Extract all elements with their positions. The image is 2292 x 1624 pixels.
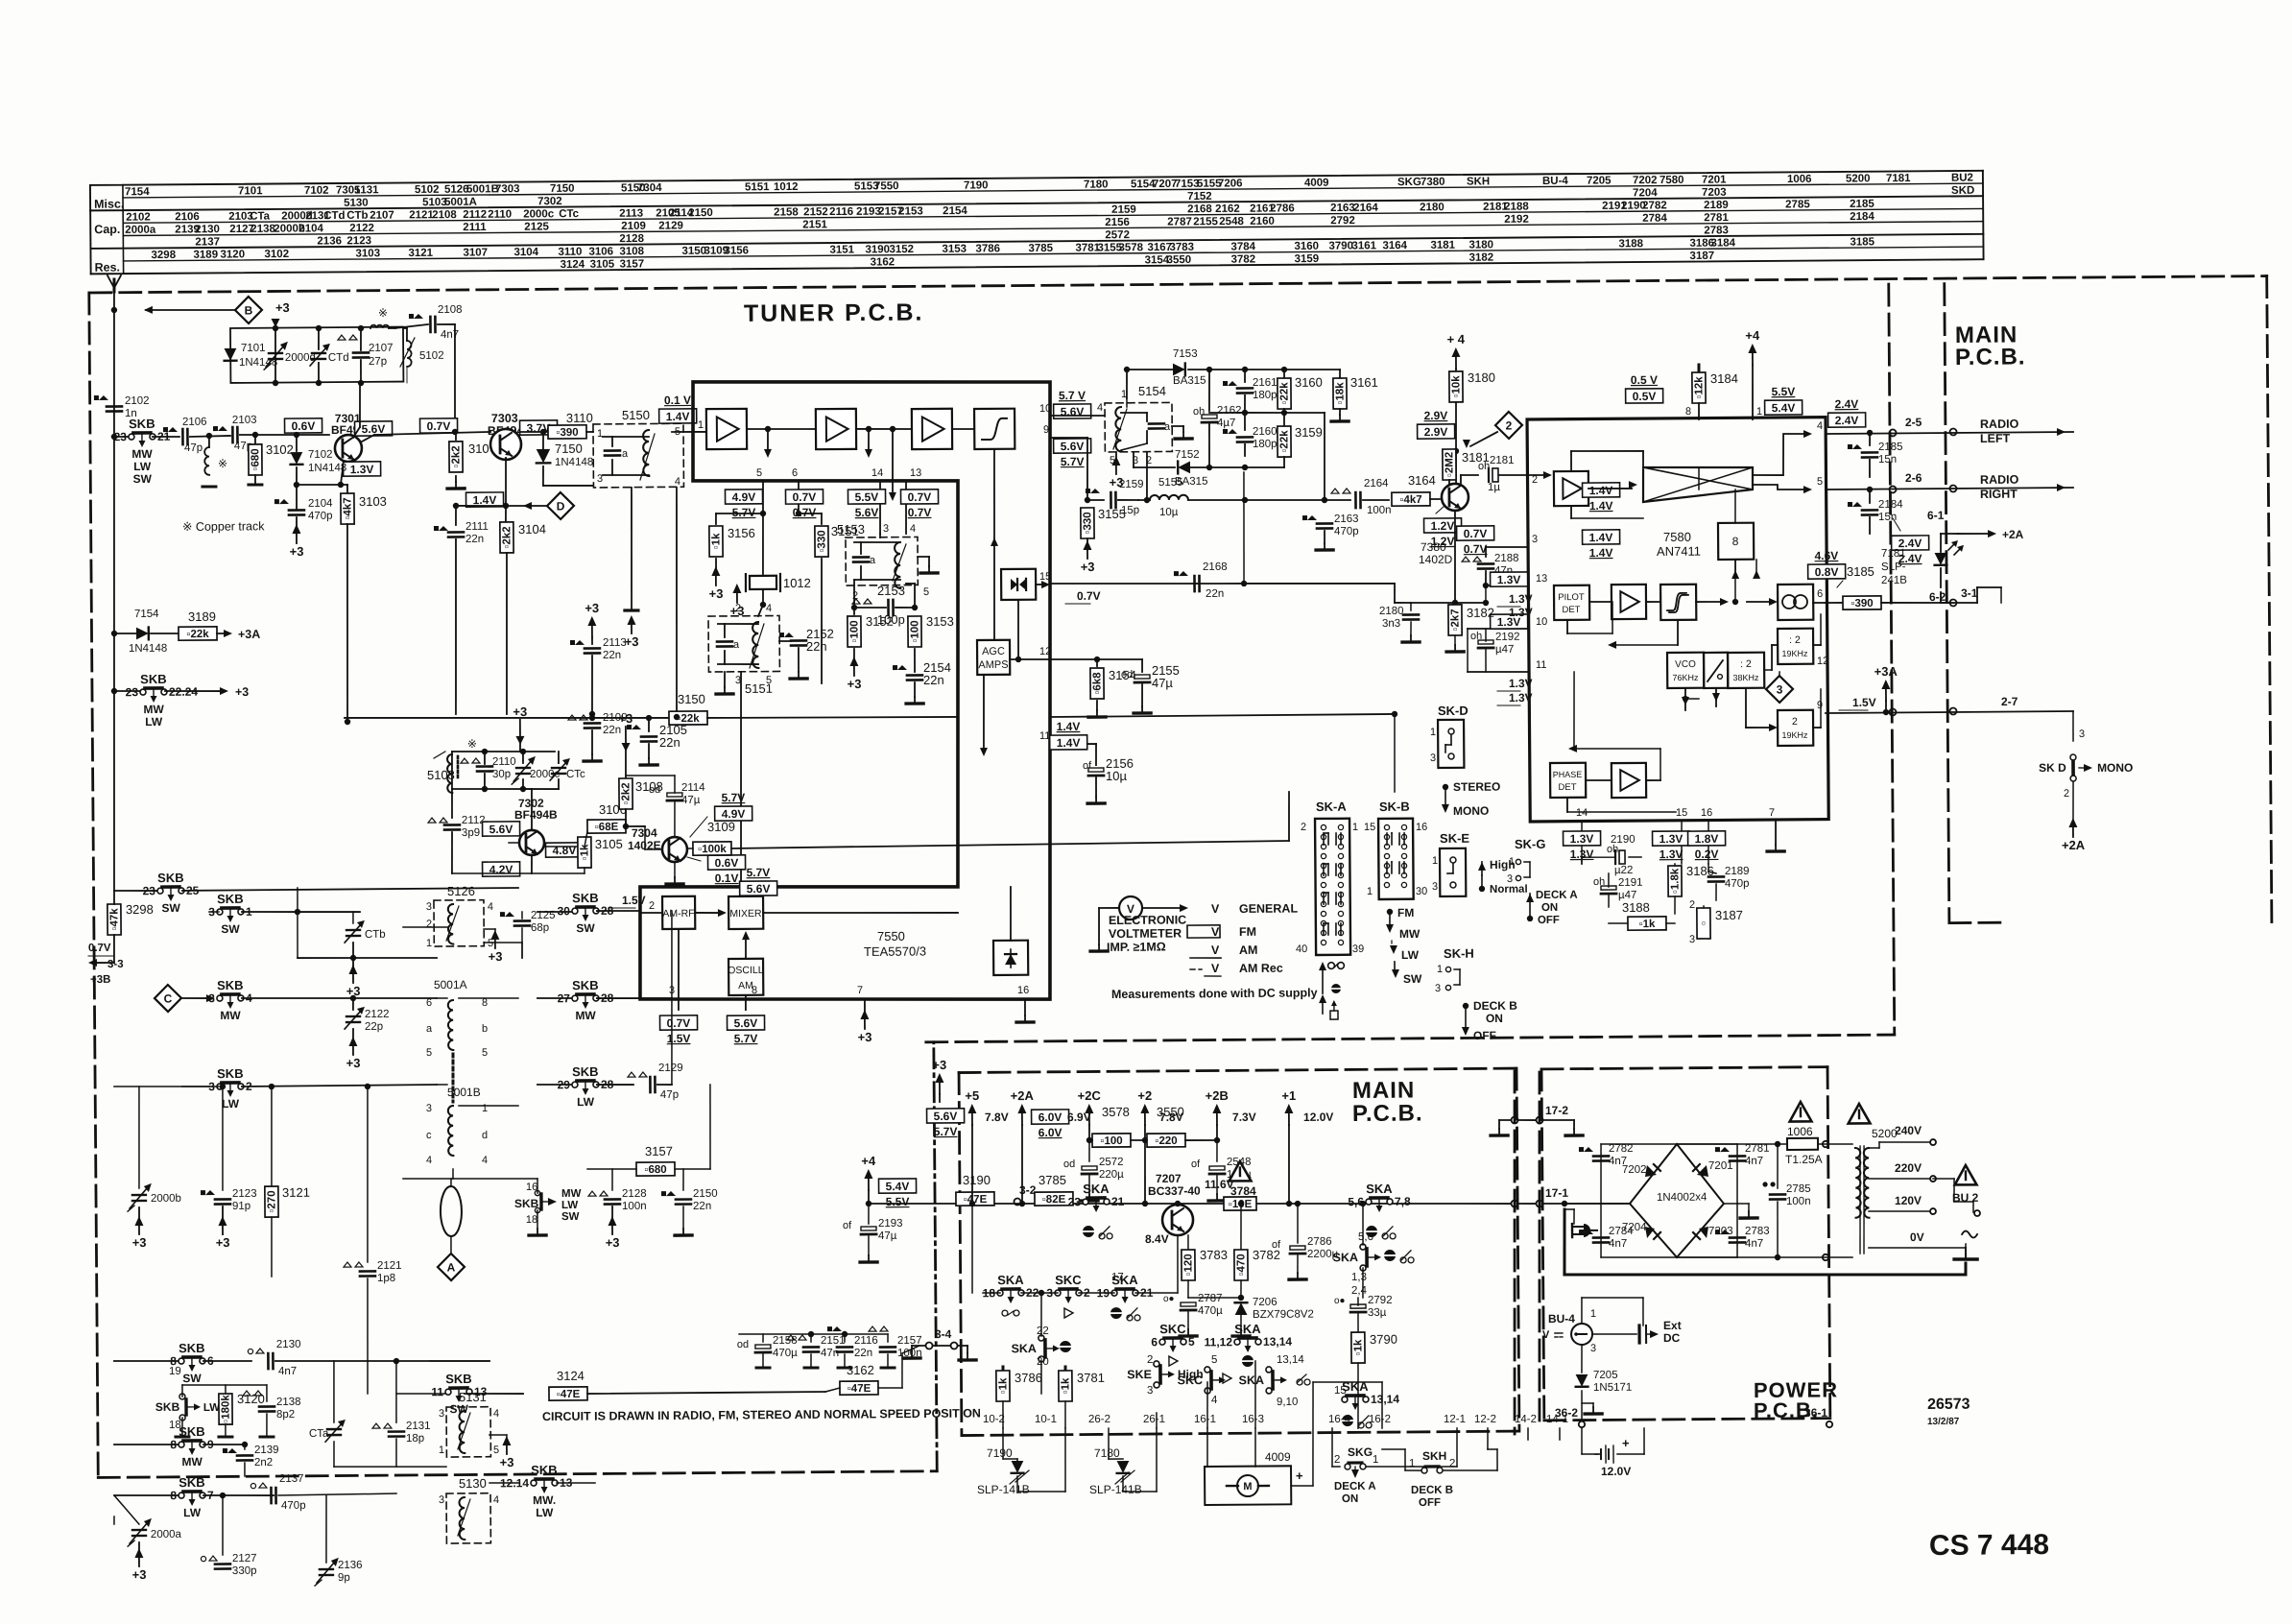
svg-text:2129: 2129 — [658, 220, 683, 231]
svg-text:2123: 2123 — [346, 235, 371, 247]
svg-text:▫6k8: ▫6k8 — [1091, 672, 1103, 695]
svg-text:3187: 3187 — [1689, 251, 1714, 262]
svg-text:2136: 2136 — [317, 235, 342, 247]
svg-text:+4: +4 — [1745, 328, 1760, 343]
svg-text:2162: 2162 — [1217, 405, 1242, 417]
svg-text:SKC: SKC — [1055, 1273, 1082, 1287]
svg-text:DET: DET — [1558, 782, 1576, 793]
svg-text:▫680: ▫680 — [644, 1164, 666, 1176]
svg-text:+ 4: + 4 — [1447, 332, 1466, 346]
legend V FM — [1187, 925, 1220, 938]
svg-text:3102: 3102 — [266, 442, 294, 457]
TUNER P.C.B. border bottom-right — [926, 1035, 1895, 1042]
MAIN P.C.B. border left (upper right section) — [1945, 284, 1949, 923]
svg-text:1: 1 — [1437, 964, 1443, 975]
svg-text:AM Rec: AM Rec — [1239, 962, 1283, 975]
TUNER P.C.B. border right — [1889, 284, 1895, 1035]
svg-text:b: b — [482, 1023, 488, 1035]
svg-text:100n: 100n — [622, 1201, 647, 1212]
svg-text:2192: 2192 — [1504, 214, 1529, 226]
IF amplifier 2 — [816, 409, 856, 449]
svg-text:10-2: 10-2 — [983, 1414, 1005, 1425]
svg-text:2185: 2185 — [1850, 199, 1874, 210]
svg-text:3124: 3124 — [561, 259, 585, 271]
resistor 3155 330 — [1081, 508, 1094, 538]
+3 under CTb — [352, 958, 354, 969]
svg-text:3: 3 — [1590, 1343, 1596, 1354]
capacitor 2189 470p — [1707, 864, 1709, 872]
svg-text:+4: +4 — [861, 1154, 876, 1168]
pin 14 wire — [879, 481, 882, 534]
svg-text:▫270: ▫270 — [266, 1190, 277, 1212]
svg-text:SKD: SKD — [1951, 185, 1974, 197]
capacitor 2104 470p — [275, 499, 279, 504]
svg-text:3104: 3104 — [513, 247, 538, 258]
svg-text:2163: 2163 — [1330, 203, 1355, 214]
svg-text:+2A: +2A — [2002, 528, 2024, 541]
svg-text:7204: 7204 — [1633, 187, 1658, 199]
svg-text:2123: 2123 — [232, 1188, 257, 1200]
svg-text:MIXER: MIXER — [729, 908, 762, 919]
resistor 3159 22k — [1283, 413, 1285, 426]
svg-text:1006: 1006 — [1787, 1125, 1813, 1138]
svg-text:7154: 7154 — [134, 609, 159, 620]
svg-text:7181: 7181 — [1886, 173, 1911, 184]
svg-text:2189: 2189 — [1725, 866, 1750, 877]
svg-text:FM: FM — [1397, 906, 1414, 919]
svg-text:3: 3 — [1432, 881, 1438, 893]
svg-text:6.0V: 6.0V — [1039, 1126, 1062, 1139]
svg-text:a: a — [733, 639, 740, 651]
svg-text:10µ: 10µ — [1159, 507, 1179, 518]
svg-text:5: 5 — [1211, 1354, 1217, 1366]
resistor 3107 2k2 — [455, 432, 457, 440]
svg-text:+2: +2 — [1137, 1088, 1152, 1103]
svg-text:a: a — [622, 448, 629, 460]
svg-text:4.9V: 4.9V — [732, 490, 756, 504]
svg-text:20: 20 — [1037, 1356, 1049, 1368]
svg-text:2: 2 — [1147, 1354, 1153, 1366]
MAIN P.C.B. border (lower) left — [959, 1073, 962, 1436]
svg-text:2127: 2127 — [232, 1553, 257, 1564]
coil 5102 — [407, 341, 412, 367]
svg-text:4: 4 — [493, 1494, 499, 1506]
svg-text:MW: MW — [220, 1009, 241, 1022]
diode 7150 1N4148 — [540, 429, 546, 435]
svg-text:of: of — [1191, 1158, 1201, 1170]
svg-text:3160: 3160 — [1295, 375, 1323, 390]
capacitor 2153 100p — [853, 580, 855, 608]
svg-text:4: 4 — [1097, 402, 1103, 414]
svg-text:14: 14 — [871, 467, 883, 479]
svg-text:5,6: 5,6 — [1358, 1231, 1373, 1243]
svg-text:2548: 2548 — [1219, 216, 1244, 227]
phase det block — [1550, 763, 1586, 798]
capacitor 2127 330p — [222, 1495, 225, 1555]
svg-text:2129: 2129 — [658, 1063, 683, 1074]
svg-text:7206: 7206 — [1253, 1297, 1277, 1308]
diode 7153 BA315 — [1127, 369, 1173, 371]
svg-text:3: 3 — [2079, 728, 2085, 740]
svg-text:1.3V: 1.3V — [1659, 832, 1683, 846]
capacitor 2152 22n — [779, 640, 791, 642]
svg-text:SKG: SKG — [1348, 1445, 1373, 1459]
svg-text:+3: +3 — [346, 1056, 361, 1070]
svg-text:17-1: 17-1 — [1545, 1186, 1568, 1200]
svg-text:+3: +3 — [489, 949, 503, 964]
svg-text:1: 1 — [597, 428, 603, 440]
svg-text:22n: 22n — [806, 639, 827, 654]
3-2 connection — [1014, 1198, 1020, 1205]
svg-text:A: A — [447, 1260, 456, 1274]
wire mixer out right — [763, 911, 958, 914]
svg-text:6: 6 — [1151, 1335, 1158, 1349]
capacitor 2155 47u — [1141, 659, 1143, 672]
svg-text:9: 9 — [1817, 700, 1823, 711]
svg-text:▫: ▫ — [1698, 921, 1709, 925]
svg-text:240V: 240V — [1895, 1124, 1922, 1137]
wire AM osc top — [452, 751, 555, 752]
IC 7580 AN7411 outline — [1527, 418, 1828, 822]
svg-text:1.4V: 1.4V — [1589, 484, 1613, 497]
svg-text:2792: 2792 — [1330, 215, 1355, 227]
capacitor 2128 100n — [611, 1169, 613, 1190]
svg-text:2130: 2130 — [195, 224, 220, 235]
svg-text:▫1k: ▫1k — [1639, 919, 1657, 930]
coil 5155 10u — [1138, 499, 1148, 501]
5150 +3 feed — [631, 488, 633, 609]
svg-text:2104: 2104 — [298, 223, 323, 234]
svg-text:+3: +3 — [858, 1030, 872, 1044]
7304 emitter ground — [674, 862, 676, 877]
diode 7154 1N4148 — [114, 633, 136, 634]
pin 15 wire — [1036, 584, 1042, 585]
svg-text:17: 17 — [1111, 1272, 1124, 1283]
svg-text:3151: 3151 — [829, 244, 854, 255]
svg-text:SLP-: SLP- — [1881, 561, 1906, 573]
svg-text:2181: 2181 — [1490, 455, 1515, 466]
svg-text:5154: 5154 — [1138, 384, 1166, 398]
svg-text:3161: 3161 — [1351, 240, 1376, 251]
svg-text:2116: 2116 — [829, 206, 853, 218]
svg-text:3578: 3578 — [1118, 242, 1143, 253]
svg-text:3107: 3107 — [463, 247, 488, 258]
svg-text:+3B: +3B — [90, 974, 111, 986]
svg-text:▫22k: ▫22k — [1278, 430, 1290, 453]
svg-text:BF494B: BF494B — [514, 808, 558, 822]
svg-text:3: 3 — [1777, 682, 1783, 696]
svg-text:3124: 3124 — [557, 1369, 585, 1383]
svg-text:0.5 V: 0.5 V — [1631, 373, 1658, 387]
svg-text:2188: 2188 — [1504, 201, 1529, 212]
svg-text:2163: 2163 — [1334, 513, 1359, 525]
svg-text:+3: +3 — [132, 1567, 147, 1582]
svg-text:+: + — [1296, 1469, 1303, 1483]
svg-text:1: 1 — [1590, 1308, 1596, 1320]
svg-text:5.7V: 5.7V — [1061, 455, 1085, 468]
svg-text:5.4V: 5.4V — [886, 1180, 910, 1193]
resistor 3781 1k — [1063, 1367, 1066, 1373]
svg-text:3182: 3182 — [1467, 606, 1494, 620]
svg-text:0.7V: 0.7V — [1464, 527, 1488, 540]
svg-text:2121: 2121 — [409, 209, 434, 221]
0V tap — [1869, 1247, 1966, 1249]
antenna — [113, 288, 115, 437]
svg-text:12-1: 12-1 — [1444, 1414, 1466, 1425]
svg-text:LW: LW — [577, 1095, 595, 1109]
svg-text:3785: 3785 — [1028, 243, 1053, 254]
voltage 0.6V 0.1V — [708, 855, 746, 870]
svg-text:2128: 2128 — [619, 233, 644, 245]
svg-text:5.6V: 5.6V — [734, 1016, 758, 1030]
svg-text:V: V — [1211, 943, 1220, 957]
svg-text:3298: 3298 — [126, 902, 154, 917]
ratio detector transformer 5154 — [1105, 402, 1172, 452]
svg-text:11: 11 — [1039, 730, 1051, 742]
svg-text:2782: 2782 — [1609, 1143, 1634, 1155]
wires SKA row — [971, 1204, 972, 1293]
svg-text:9p: 9p — [338, 1572, 350, 1584]
capacitor 2125 68p — [484, 942, 522, 944]
svg-text:1: 1 — [482, 1103, 488, 1114]
svg-text:3189: 3189 — [193, 250, 218, 261]
svg-text:2786: 2786 — [1270, 203, 1295, 214]
svg-text:2.4V: 2.4V — [1835, 414, 1859, 427]
svg-text:5131: 5131 — [354, 184, 379, 196]
svg-text:5102: 5102 — [415, 184, 440, 196]
svg-text:7102: 7102 — [308, 449, 333, 461]
svg-text:7150: 7150 — [550, 183, 575, 195]
svg-text:※ Copper track: ※ Copper track — [182, 519, 265, 534]
svg-text:3103: 3103 — [355, 248, 380, 259]
ground bridge — [1737, 1203, 1749, 1205]
svg-text:22n: 22n — [603, 725, 621, 736]
svg-text:4: 4 — [910, 523, 916, 535]
resistor 3180 10k — [1449, 371, 1463, 402]
svg-text:1.5V: 1.5V — [667, 1032, 691, 1045]
wire 3-1 — [1949, 599, 1956, 606]
svg-text:36-1: 36-1 — [1804, 1406, 1827, 1420]
svg-text:16: 16 — [1416, 822, 1427, 833]
svg-text:19KHz: 19KHz — [1781, 730, 1808, 740]
svg-text:▫12k: ▫12k — [1693, 376, 1705, 399]
svg-text:0.7V: 0.7V — [427, 419, 451, 433]
svg-text:5153: 5153 — [837, 522, 865, 537]
svg-text:SK-E: SK-E — [1440, 831, 1470, 846]
POWER P.C.B. border — [1541, 1067, 1827, 1069]
svg-text:ON: ON — [1541, 902, 1558, 914]
svg-text:3: 3 — [208, 991, 215, 1005]
decoupling row 2158 2151 2116 2157 — [739, 1333, 888, 1335]
svg-text:3-4: 3-4 — [935, 1327, 952, 1341]
svg-text:CTd: CTd — [323, 210, 345, 222]
transformer taps — [1869, 1147, 1879, 1149]
svg-text:BA315: BA315 — [1173, 375, 1206, 387]
svg-text:1.4V: 1.4V — [1057, 720, 1081, 733]
capacitor 2103 47p — [213, 426, 218, 431]
capacitor 2785 100n — [1777, 1144, 1779, 1188]
amp block stereo — [1612, 585, 1646, 619]
svg-text:+3: +3 — [848, 677, 862, 691]
svg-text:OFF: OFF — [1473, 1029, 1496, 1042]
svg-text:4009: 4009 — [1265, 1450, 1291, 1464]
svg-text:3782: 3782 — [1231, 253, 1256, 265]
svg-text:2.9V: 2.9V — [1424, 409, 1448, 422]
capacitor 2129 47p — [628, 1072, 635, 1077]
svg-text:3578: 3578 — [1102, 1105, 1130, 1119]
switch SKB 3-4 MW — [217, 995, 223, 1001]
svg-text:7580: 7580 — [1659, 175, 1684, 186]
svg-text:VOLTMETER: VOLTMETER — [1109, 926, 1182, 941]
diamond D node — [547, 492, 574, 519]
+3 right of 5126 — [484, 928, 495, 930]
svg-text:VCO: VCO — [1675, 659, 1696, 670]
main RF rail — [114, 436, 132, 438]
svg-text:SK D: SK D — [2039, 761, 2066, 775]
resistor 3298 47k — [107, 904, 121, 935]
svg-text:▫4k7: ▫4k7 — [1399, 494, 1421, 506]
svg-text:2130: 2130 — [276, 1339, 301, 1350]
svg-text:+: + — [1622, 1436, 1630, 1450]
switch SKB 8-9 MW — [114, 1444, 180, 1445]
svg-text:3187: 3187 — [1715, 908, 1743, 922]
capacitor 2106 47p — [163, 427, 168, 432]
svg-text:2122: 2122 — [349, 223, 374, 234]
svg-text:+5: +5 — [965, 1088, 979, 1103]
divider 2 19KHz block — [1778, 710, 1813, 746]
svg-text:od: od — [1121, 669, 1133, 681]
emitter 7301 down — [341, 462, 344, 485]
svg-text:10: 10 — [1536, 616, 1547, 628]
IF transformer 5150 — [593, 423, 684, 488]
resistor 3783 120 — [1187, 1235, 1189, 1250]
svg-text:18p: 18p — [406, 1433, 424, 1445]
svg-text:3781: 3781 — [1077, 1371, 1105, 1385]
voltage callouts under FM pins — [725, 490, 762, 504]
varcap 2000c — [516, 767, 530, 770]
wire emitter to 7102 node — [297, 484, 341, 487]
warning 3784 10E — [1229, 1161, 1251, 1182]
svg-text:3102: 3102 — [264, 249, 289, 260]
svg-text:7101: 7101 — [238, 185, 263, 197]
svg-text:V: V — [1542, 1329, 1550, 1341]
svg-text:3159: 3159 — [1295, 253, 1320, 265]
svg-text:1: 1 — [698, 419, 704, 431]
svg-text:SKA: SKA — [1366, 1182, 1393, 1196]
svg-text:2: 2 — [2064, 788, 2069, 800]
svg-text:29: 29 — [558, 1078, 571, 1091]
capacitor 2572 220u — [1088, 1140, 1090, 1161]
svg-text:+3: +3 — [1081, 560, 1095, 574]
svg-text:0.6V: 0.6V — [292, 419, 316, 433]
svg-text:SLP-141B: SLP-141B — [977, 1483, 1030, 1496]
wire 5154 pin2 down — [1146, 452, 1149, 500]
svg-text:3: 3 — [1532, 534, 1538, 545]
AM osc coil 5103 — [451, 752, 454, 789]
svg-text:CTb: CTb — [365, 929, 386, 941]
svg-text:2193: 2193 — [878, 1218, 903, 1230]
svg-text:7580: 7580 — [1663, 530, 1691, 544]
svg-text:1.8V: 1.8V — [1695, 832, 1719, 846]
ferrite rod antenna — [441, 1186, 462, 1236]
svg-text:2: 2 — [1301, 822, 1306, 833]
svg-text:o●: o● — [1163, 1294, 1175, 1304]
svg-text:3: 3 — [426, 1103, 432, 1114]
copper track coil — [370, 325, 389, 328]
svg-text:SW: SW — [561, 1211, 580, 1223]
trimmer CTc — [552, 767, 565, 770]
svg-text:1,3: 1,3 — [1351, 1272, 1367, 1283]
svg-text:AM-RF: AM-RF — [662, 908, 694, 919]
svg-text:7152: 7152 — [1187, 191, 1212, 203]
svg-text:2782: 2782 — [1642, 200, 1667, 211]
svg-text:3783: 3783 — [1200, 1248, 1228, 1262]
svg-text:0.7V: 0.7V — [908, 490, 932, 504]
svg-text:3109: 3109 — [707, 820, 735, 834]
svg-text:2111: 2111 — [463, 222, 487, 233]
svg-text:5001A: 5001A — [444, 197, 477, 208]
svg-text:23: 23 — [114, 430, 128, 443]
svg-text:16: 16 — [1701, 807, 1712, 819]
svg-text:MW: MW — [561, 1188, 582, 1200]
capacitor 2138 8p2 — [266, 1385, 268, 1401]
svg-text:470µ: 470µ — [1198, 1305, 1223, 1317]
wire 2188 to pilot pin — [1485, 585, 1487, 603]
svg-text:3110: 3110 — [558, 247, 582, 258]
svg-text:SKB: SKB — [179, 1475, 205, 1490]
svg-text:0.7V: 0.7V — [88, 943, 111, 954]
svg-text:241B: 241B — [1881, 575, 1907, 586]
svg-text:1µ: 1µ — [1488, 482, 1500, 493]
LED 7180 SLP-141B — [1108, 1428, 1110, 1459]
svg-text:15n: 15n — [1878, 512, 1897, 523]
capacitor 2123 91p — [220, 1084, 226, 1089]
svg-text:RADIO: RADIO — [1980, 418, 2019, 431]
svg-text:2781: 2781 — [1704, 212, 1729, 224]
svg-text:1N5171: 1N5171 — [1593, 1382, 1632, 1394]
svg-text:4n7: 4n7 — [1745, 1238, 1763, 1250]
svg-text:470p: 470p — [1725, 878, 1750, 890]
svg-text:2154: 2154 — [943, 205, 967, 217]
svg-text:4: 4 — [488, 901, 493, 913]
svg-text:2784: 2784 — [1642, 213, 1667, 225]
svg-text:38KHz: 38KHz — [1732, 673, 1759, 682]
svg-text:15: 15 — [1676, 807, 1687, 819]
resistor 3790 1k — [1351, 1332, 1365, 1363]
svg-text:2192: 2192 — [1495, 632, 1520, 643]
capacitor 2121 1p8 — [367, 1087, 370, 1262]
svg-text:2783: 2783 — [1704, 225, 1729, 236]
switch SKB 12.14-13 MW LW — [489, 1482, 518, 1484]
down arrows after amps — [767, 429, 769, 451]
svg-text:3180: 3180 — [1468, 370, 1495, 385]
svg-text:SKA: SKA — [1342, 1379, 1369, 1394]
svg-text:16: 16 — [1017, 985, 1029, 996]
svg-text:+3: +3 — [730, 604, 745, 618]
svg-text:▫220: ▫220 — [1155, 1135, 1177, 1147]
Ext DC switch — [1592, 1333, 1636, 1336]
capacitor 2784 4n7 — [1600, 1204, 1603, 1257]
svg-text:6: 6 — [792, 467, 798, 479]
svg-text:1: 1 — [1430, 727, 1436, 738]
svg-text:13,14: 13,14 — [1263, 1335, 1292, 1349]
wire 5154 pin1 up to 7153 — [1126, 370, 1129, 398]
svg-text:3184: 3184 — [1710, 371, 1738, 386]
+3 AM osc — [519, 720, 521, 737]
svg-text:2783: 2783 — [1745, 1226, 1770, 1237]
diode 7206 BZX79C8V2 — [1235, 1302, 1248, 1315]
capacitor 2185 15n — [1867, 430, 1873, 436]
